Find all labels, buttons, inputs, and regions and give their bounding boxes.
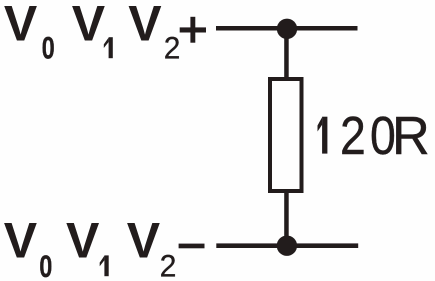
- junction dot: bottom node: [277, 236, 297, 256]
- svg-text:R: R: [392, 106, 430, 166]
- plus sign of top net label: [180, 17, 206, 43]
- wire: top horizontal rail: [216, 26, 358, 31]
- svg-text:V: V: [66, 213, 100, 269]
- net label V0 V1 V2 - (bottom-left): [4, 213, 177, 281]
- minus sign of bottom net label: [179, 244, 205, 249]
- svg-text:V: V: [4, 213, 38, 269]
- junction dot: top node: [277, 19, 297, 39]
- wire: top node down to resistor: [284, 28, 289, 77]
- svg-text:2: 2: [160, 248, 177, 281]
- svg-text:V: V: [72, 0, 106, 52]
- svg-text:0: 0: [42, 30, 55, 65]
- svg-text:V: V: [4, 0, 38, 52]
- value label 120R: [318, 104, 430, 166]
- svg-text:V: V: [127, 213, 161, 269]
- svg-text:V: V: [128, 0, 162, 52]
- wire: resistor down to bottom node: [284, 193, 289, 246]
- svg-text:0: 0: [39, 249, 52, 281]
- resistor body (120R): [270, 79, 302, 191]
- net label V0 V1 V2 + (top-left): [4, 0, 181, 66]
- svg-text:2: 2: [164, 30, 181, 66]
- svg-text:2: 2: [340, 104, 366, 165]
- wire: bottom horizontal rail: [216, 243, 358, 248]
